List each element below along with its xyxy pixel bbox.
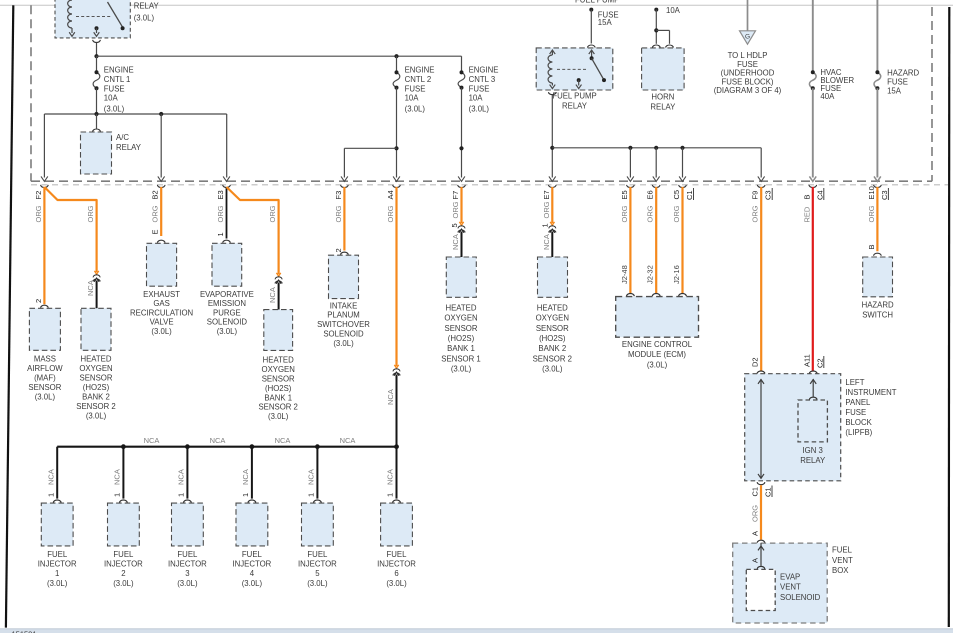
svg-text:VENT: VENT bbox=[780, 583, 801, 592]
svg-text:(HO2S): (HO2S) bbox=[83, 383, 110, 392]
svg-text:NCA: NCA bbox=[113, 469, 122, 485]
wire pass-through D2 to C1 inside LIPFB bbox=[758, 379, 764, 479]
connector A4 at fuse block boundary bbox=[386, 176, 400, 199]
svg-text:(3.0L): (3.0L) bbox=[104, 105, 125, 114]
svg-text:EVAPORATIVE: EVAPORATIVE bbox=[200, 290, 254, 299]
connector F3 at fuse block boundary bbox=[334, 176, 348, 199]
svg-text:ENGINE: ENGINE bbox=[104, 66, 134, 75]
svg-text:NCA: NCA bbox=[451, 234, 460, 250]
svg-text:C1: C1 bbox=[685, 190, 694, 200]
svg-text:B2: B2 bbox=[151, 190, 160, 199]
svg-text:PURGE: PURGE bbox=[213, 308, 241, 317]
svg-text:BANK 1: BANK 1 bbox=[447, 344, 475, 353]
svg-text:NCA: NCA bbox=[177, 469, 186, 485]
svg-text:A11: A11 bbox=[802, 354, 811, 367]
svg-text:SENSOR 1: SENSOR 1 bbox=[441, 354, 480, 363]
svg-text:F3: F3 bbox=[334, 191, 343, 200]
svg-text:INJECTOR: INJECTOR bbox=[38, 560, 77, 569]
svg-text:INTAKE: INTAKE bbox=[330, 301, 358, 310]
svg-text:INJECTOR: INJECTOR bbox=[104, 560, 143, 569]
svg-text:RELAY: RELAY bbox=[650, 102, 676, 111]
svg-text:SENSOR: SENSOR bbox=[262, 375, 295, 384]
svg-text:(MAF): (MAF) bbox=[34, 373, 56, 382]
connector E7 at fuse block boundary bbox=[542, 176, 556, 199]
svg-text:ENGINE: ENGINE bbox=[405, 66, 435, 75]
A/C relay bbox=[81, 114, 142, 174]
svg-text:(HO2S): (HO2S) bbox=[539, 334, 566, 343]
hazard fuse 15A bbox=[874, 0, 920, 178]
svg-text:VENT: VENT bbox=[832, 556, 853, 565]
underhood fuse block boundary (dashed box) bbox=[31, 5, 932, 181]
svg-text:SENSOR 2: SENSOR 2 bbox=[533, 354, 572, 363]
svg-text:NCA: NCA bbox=[241, 469, 250, 485]
svg-text:SENSOR 2: SENSOR 2 bbox=[76, 402, 115, 411]
svg-text:FUEL: FUEL bbox=[47, 550, 68, 559]
svg-text:NCA: NCA bbox=[210, 436, 226, 445]
svg-text:(3.0L): (3.0L) bbox=[333, 339, 354, 348]
svg-text:G: G bbox=[745, 34, 750, 41]
svg-text:FUEL: FUEL bbox=[832, 546, 853, 555]
svg-text:NCA: NCA bbox=[268, 287, 277, 303]
svg-text:FUEL: FUEL bbox=[177, 550, 198, 559]
svg-text:AIRFLOW: AIRFLOW bbox=[27, 364, 63, 373]
svg-text:NCA: NCA bbox=[542, 234, 551, 250]
svg-text:FUSE: FUSE bbox=[845, 408, 866, 417]
svg-text:EXHAUST: EXHAUST bbox=[143, 290, 180, 299]
wire RED from B to LIPFB A11 bbox=[802, 187, 824, 371]
svg-text:ENGINE CONTROL: ENGINE CONTROL bbox=[622, 340, 693, 349]
svg-text:(3.0L): (3.0L) bbox=[217, 327, 238, 336]
svg-text:INSTRUMENT: INSTRUMENT bbox=[845, 388, 896, 397]
svg-text:VALVE: VALVE bbox=[150, 318, 174, 327]
svg-text:C2: C2 bbox=[815, 358, 824, 368]
svg-text:ORG: ORG bbox=[646, 205, 655, 222]
fuel injector 2 bbox=[104, 447, 143, 588]
wire distribution bus below fuse 1 bbox=[44, 112, 226, 178]
svg-text:A4: A4 bbox=[386, 190, 395, 199]
svg-text:OXYGEN: OXYGEN bbox=[79, 364, 112, 373]
svg-text:SENSOR: SENSOR bbox=[80, 373, 113, 382]
mass airflow (MAF) sensor bbox=[27, 299, 63, 402]
svg-text:NCA: NCA bbox=[340, 436, 356, 445]
svg-text:ORG: ORG bbox=[34, 205, 43, 222]
svg-text:CNTL 1: CNTL 1 bbox=[104, 75, 131, 84]
svg-text:E: E bbox=[151, 229, 160, 234]
svg-text:J2-32: J2-32 bbox=[646, 265, 655, 284]
svg-text:ORG: ORG bbox=[751, 505, 760, 522]
svg-text:SENSOR: SENSOR bbox=[445, 324, 478, 333]
evaporative emission purge solenoid bbox=[200, 232, 254, 336]
IGN 3 relay bbox=[798, 400, 827, 465]
svg-text:(3.0L): (3.0L) bbox=[469, 105, 490, 114]
svg-text:FUSE: FUSE bbox=[469, 85, 490, 94]
svg-text:HEATED: HEATED bbox=[445, 303, 476, 312]
svg-text:1: 1 bbox=[241, 493, 250, 497]
svg-text:(HO2S): (HO2S) bbox=[265, 384, 292, 393]
svg-text:(HO2S): (HO2S) bbox=[448, 334, 475, 343]
svg-text:ORG: ORG bbox=[151, 205, 160, 222]
svg-text:(DIAGRAM 3 OF 4): (DIAGRAM 3 OF 4) bbox=[714, 86, 782, 95]
horn relay feed 10A bbox=[653, 6, 681, 48]
svg-text:FUEL: FUEL bbox=[387, 550, 408, 559]
svg-text:IGN 3: IGN 3 bbox=[803, 446, 823, 455]
svg-text:E10: E10 bbox=[867, 186, 876, 199]
svg-text:TO L HDLP: TO L HDLP bbox=[728, 51, 768, 60]
svg-text:(3.0L): (3.0L) bbox=[542, 365, 563, 374]
svg-text:RELAY: RELAY bbox=[116, 143, 142, 152]
svg-text:ORG: ORG bbox=[86, 205, 95, 222]
connector E5 at fuse block boundary bbox=[620, 176, 634, 199]
svg-text:C4: C4 bbox=[815, 190, 824, 200]
wire relay output to feed bus bbox=[93, 40, 101, 58]
svg-text:J2-48: J2-48 bbox=[620, 265, 629, 284]
svg-text:RECIRCULATION: RECIRCULATION bbox=[130, 308, 193, 317]
wire ORG from F2, splits to MAF and HO2S bank2 sensor2 bbox=[34, 187, 97, 304]
svg-text:INJECTOR: INJECTOR bbox=[168, 560, 207, 569]
svg-text:BANK 2: BANK 2 bbox=[538, 344, 566, 353]
svg-text:1: 1 bbox=[307, 493, 316, 497]
exhaust gas recirculation valve bbox=[130, 229, 193, 336]
fuse ENGINE CNTL 2 10A bbox=[393, 56, 434, 177]
svg-text:RELAY: RELAY bbox=[800, 456, 826, 465]
svg-text:(3.0L): (3.0L) bbox=[113, 579, 134, 588]
EVAP vent solenoid bbox=[746, 543, 820, 610]
svg-text:RELAY: RELAY bbox=[134, 2, 160, 11]
svg-text:ORG: ORG bbox=[451, 201, 460, 218]
wires ORG E5,E6,C5 to ECM bbox=[620, 187, 686, 296]
svg-text:(3.0L): (3.0L) bbox=[134, 14, 155, 23]
svg-text:15A: 15A bbox=[598, 18, 613, 27]
svg-text:PLANUM: PLANUM bbox=[327, 311, 360, 320]
svg-text:10A: 10A bbox=[469, 94, 484, 103]
svg-text:OXYGEN: OXYGEN bbox=[262, 365, 295, 374]
svg-text:SOLENOID: SOLENOID bbox=[207, 318, 248, 327]
HVAC blower fuse 40A bbox=[809, 0, 854, 178]
svg-text:1: 1 bbox=[113, 493, 122, 497]
svg-text:HAZARD: HAZARD bbox=[887, 69, 919, 78]
svg-text:10A: 10A bbox=[104, 94, 119, 103]
relay (3.0L) top-left, clipped at page top bbox=[55, 0, 159, 38]
svg-text:C1: C1 bbox=[751, 487, 760, 497]
svg-text:FUSE: FUSE bbox=[405, 85, 426, 94]
svg-text:1: 1 bbox=[541, 223, 550, 227]
svg-text:A: A bbox=[751, 531, 760, 536]
svg-text:E6: E6 bbox=[646, 190, 655, 199]
svg-text:5: 5 bbox=[450, 223, 459, 227]
svg-text:FUSE: FUSE bbox=[887, 78, 908, 87]
svg-text:F7: F7 bbox=[451, 191, 460, 200]
svg-text:FUSE BLOCK): FUSE BLOCK) bbox=[722, 77, 774, 86]
svg-text:NCA: NCA bbox=[386, 389, 395, 405]
svg-text:ENGINE: ENGINE bbox=[469, 66, 499, 75]
svg-text:10A: 10A bbox=[666, 6, 681, 15]
svg-text:(3.0L): (3.0L) bbox=[307, 579, 328, 588]
fuse ENGINE CNTL 1 10A bbox=[93, 56, 134, 114]
svg-text:ORG: ORG bbox=[867, 205, 876, 222]
left instrument panel fuse block (LIPFB) bbox=[745, 371, 897, 481]
svg-text:ORG: ORG bbox=[542, 201, 551, 218]
svg-text:5: 5 bbox=[315, 569, 320, 578]
svg-text:1: 1 bbox=[177, 493, 186, 497]
connector F7 at fuse block boundary bbox=[451, 176, 465, 199]
wire branch to F3 bbox=[344, 148, 396, 177]
svg-text:1: 1 bbox=[46, 493, 55, 497]
svg-text:NCA: NCA bbox=[386, 469, 395, 485]
svg-text:NCA: NCA bbox=[46, 469, 55, 485]
svg-text:(UNDERHOOD: (UNDERHOOD bbox=[721, 69, 775, 78]
svg-text:(3.0L): (3.0L) bbox=[268, 412, 289, 421]
svg-text:MODULE (ECM): MODULE (ECM) bbox=[628, 350, 686, 359]
svg-text:BANK 1: BANK 1 bbox=[264, 393, 292, 402]
svg-text:EMISSION: EMISSION bbox=[208, 299, 246, 308]
svg-text:OXYGEN: OXYGEN bbox=[444, 314, 477, 323]
fuel injector 4 bbox=[232, 447, 271, 588]
svg-text:(3.0L): (3.0L) bbox=[35, 392, 56, 401]
svg-text:ORG: ORG bbox=[751, 205, 760, 222]
svg-text:CNTL 3: CNTL 3 bbox=[469, 75, 496, 84]
connector B2 at fuse block boundary bbox=[151, 176, 165, 199]
fuel vent box bbox=[733, 540, 853, 623]
svg-text:2: 2 bbox=[121, 569, 125, 578]
svg-text:LEFT: LEFT bbox=[845, 378, 864, 387]
svg-text:SWITCHOVER: SWITCHOVER bbox=[317, 320, 370, 329]
svg-text:(3.0L): (3.0L) bbox=[451, 365, 472, 374]
svg-text:D2: D2 bbox=[751, 357, 760, 367]
svg-text:C3: C3 bbox=[764, 190, 773, 200]
svg-text:J2-16: J2-16 bbox=[672, 265, 681, 284]
svg-text:(3.0L): (3.0L) bbox=[151, 327, 172, 336]
svg-text:MASS: MASS bbox=[34, 354, 56, 363]
svg-text:151501: 151501 bbox=[12, 630, 37, 634]
connector B at fuse block boundary bbox=[802, 176, 824, 200]
fuel pump fuse 15A (clipped at top) bbox=[575, 0, 619, 43]
svg-text:ORG: ORG bbox=[334, 205, 343, 222]
svg-text:6: 6 bbox=[394, 569, 398, 578]
svg-text:B: B bbox=[867, 244, 876, 249]
svg-text:F9: F9 bbox=[751, 191, 760, 200]
svg-text:FUEL: FUEL bbox=[113, 550, 134, 559]
engine control module (ECM) bbox=[616, 297, 699, 370]
svg-text:FUEL PUMP: FUEL PUMP bbox=[552, 92, 596, 101]
svg-text:2: 2 bbox=[334, 248, 343, 252]
svg-text:HEATED: HEATED bbox=[263, 356, 294, 365]
svg-text:GAS: GAS bbox=[153, 299, 169, 308]
wire ORG/NCA from F7 bbox=[450, 187, 465, 257]
svg-text:(3.0L): (3.0L) bbox=[386, 579, 407, 588]
svg-text:FUSE: FUSE bbox=[737, 60, 758, 69]
svg-text:ORG: ORG bbox=[620, 205, 629, 222]
heated oxygen sensor (HO2S) bank 2 sensor 2 (E7) bbox=[533, 257, 572, 374]
svg-text:PANEL: PANEL bbox=[845, 398, 871, 407]
svg-text:NCA: NCA bbox=[144, 436, 160, 445]
svg-text:1: 1 bbox=[55, 569, 59, 578]
svg-text:SENSOR: SENSOR bbox=[536, 324, 569, 333]
svg-text:E5: E5 bbox=[620, 190, 629, 199]
svg-text:(3.0L): (3.0L) bbox=[177, 579, 198, 588]
connector E6 at fuse block boundary bbox=[646, 176, 660, 199]
svg-text:NCA: NCA bbox=[275, 436, 291, 445]
svg-text:B: B bbox=[802, 194, 811, 199]
wire ORG C1 to fuel vent box A bbox=[751, 485, 762, 540]
connector E10 at fuse block boundary bbox=[867, 176, 889, 200]
svg-text:C3: C3 bbox=[880, 190, 889, 200]
fuse ENGINE CNTL 3 10A bbox=[458, 56, 498, 177]
svg-text:3: 3 bbox=[185, 569, 189, 578]
svg-text:FUEL: FUEL bbox=[242, 550, 263, 559]
svg-text:RED: RED bbox=[802, 206, 811, 222]
svg-text:ORG: ORG bbox=[672, 205, 681, 222]
svg-text:EVAP: EVAP bbox=[780, 573, 800, 582]
svg-text:SOLENOID: SOLENOID bbox=[780, 593, 821, 602]
svg-text:SENSOR: SENSOR bbox=[28, 383, 61, 392]
wire ORG from F9 to LIPFB D2 bbox=[751, 187, 762, 371]
svg-text:FUEL PUMP: FUEL PUMP bbox=[575, 0, 619, 4]
svg-text:(3.0L): (3.0L) bbox=[47, 579, 68, 588]
svg-text:(3.0L): (3.0L) bbox=[86, 411, 107, 420]
svg-text:4: 4 bbox=[250, 569, 255, 578]
svg-text:HORN: HORN bbox=[651, 93, 674, 102]
svg-text:CNTL 2: CNTL 2 bbox=[405, 75, 432, 84]
svg-text:15A: 15A bbox=[887, 87, 902, 96]
svg-text:(3.0L): (3.0L) bbox=[647, 360, 668, 369]
svg-text:ORG: ORG bbox=[386, 205, 395, 222]
svg-text:RELAY: RELAY bbox=[562, 102, 588, 111]
connector F9 at fuse block boundary bbox=[751, 176, 773, 200]
fuel injector 3 bbox=[168, 447, 207, 588]
svg-text:BLOCK: BLOCK bbox=[845, 418, 872, 427]
harness boundary dashed line bbox=[31, 184, 948, 186]
svg-text:HEATED: HEATED bbox=[80, 354, 111, 363]
svg-text:E3: E3 bbox=[216, 190, 225, 199]
wire fuel injector NCA bus bbox=[57, 436, 399, 449]
connector C5 at fuse block boundary bbox=[672, 176, 694, 200]
wire ORG/NCA from A4 down to injector bus bbox=[386, 187, 400, 447]
svg-text:(3.0L): (3.0L) bbox=[242, 579, 263, 588]
fuel pump relay bbox=[536, 45, 613, 110]
svg-text:C5: C5 bbox=[672, 190, 681, 200]
svg-text:INJECTOR: INJECTOR bbox=[298, 560, 337, 569]
fuel injector 6 bbox=[377, 447, 416, 588]
svg-text:(3.0L): (3.0L) bbox=[405, 105, 426, 114]
svg-text:C1: C1 bbox=[764, 487, 773, 497]
svg-text:ORG: ORG bbox=[216, 205, 225, 222]
intake planum switchover solenoid bbox=[317, 248, 370, 348]
wire fuel pump relay output / E7 feed bus bbox=[549, 92, 762, 177]
fuel injector 1 bbox=[38, 447, 77, 588]
svg-text:ORG: ORG bbox=[268, 205, 277, 222]
wire A11 to IGN 3 relay bbox=[809, 379, 817, 400]
connector E3 at fuse block boundary bbox=[216, 176, 230, 199]
svg-text:OXYGEN: OXYGEN bbox=[536, 314, 569, 323]
svg-text:40A: 40A bbox=[820, 92, 835, 101]
svg-text:INJECTOR: INJECTOR bbox=[232, 560, 271, 569]
svg-text:HAZARD: HAZARD bbox=[862, 301, 894, 310]
svg-text:SWITCH: SWITCH bbox=[862, 311, 893, 320]
wire ORG from B2 bbox=[151, 187, 162, 236]
svg-text:NCA: NCA bbox=[86, 280, 95, 296]
horn relay bbox=[642, 48, 685, 111]
svg-text:SOLENOID: SOLENOID bbox=[323, 330, 364, 339]
wire ORG from F3 bbox=[334, 187, 345, 251]
heated oxygen sensor (HO2S) bank 1 sensor 1 bbox=[441, 257, 480, 374]
wire ORG/NCA from E7 bbox=[541, 187, 556, 257]
wire top feed bus to fuses 1,2,3 bbox=[97, 54, 462, 58]
svg-text:SENSOR 2: SENSOR 2 bbox=[258, 403, 297, 412]
svg-text:FUSE: FUSE bbox=[104, 85, 125, 94]
connector C1 below LIPFB bbox=[751, 482, 773, 497]
svg-text:A/C: A/C bbox=[116, 133, 129, 142]
wire from E3, black to purge solenoid, ORG branch to HO2S bank1 sensor2 bbox=[216, 187, 279, 274]
svg-text:10A: 10A bbox=[405, 94, 420, 103]
diagram part number bbox=[12, 630, 37, 638]
svg-text:2: 2 bbox=[34, 299, 43, 303]
connector F2 at fuse block boundary bbox=[34, 176, 48, 199]
svg-text:F2: F2 bbox=[34, 191, 43, 200]
svg-text:(LIPFB): (LIPFB) bbox=[845, 428, 872, 437]
svg-text:BANK 2: BANK 2 bbox=[82, 392, 110, 401]
svg-text:1: 1 bbox=[386, 493, 395, 497]
svg-text:INJECTOR: INJECTOR bbox=[377, 560, 416, 569]
heated oxygen sensor (HO2S) bank 2 sensor 2 bbox=[76, 271, 115, 420]
svg-text:1: 1 bbox=[216, 232, 225, 236]
hazard switch bbox=[862, 253, 894, 320]
svg-text:FUEL: FUEL bbox=[307, 550, 328, 559]
svg-text:BOX: BOX bbox=[832, 566, 849, 575]
svg-text:A: A bbox=[751, 558, 760, 563]
wire ORG from E10 to hazard switch bbox=[867, 187, 878, 251]
ground/off-page symbol G : TO L HDLP FUSE bbox=[714, 0, 782, 95]
svg-text:E7: E7 bbox=[542, 190, 551, 199]
svg-text:HEATED: HEATED bbox=[537, 303, 568, 312]
heated oxygen sensor (HO2S) bank 1 sensor 2 bbox=[258, 273, 297, 421]
svg-text:NCA: NCA bbox=[307, 469, 316, 485]
fuel injector 5 bbox=[298, 447, 337, 588]
